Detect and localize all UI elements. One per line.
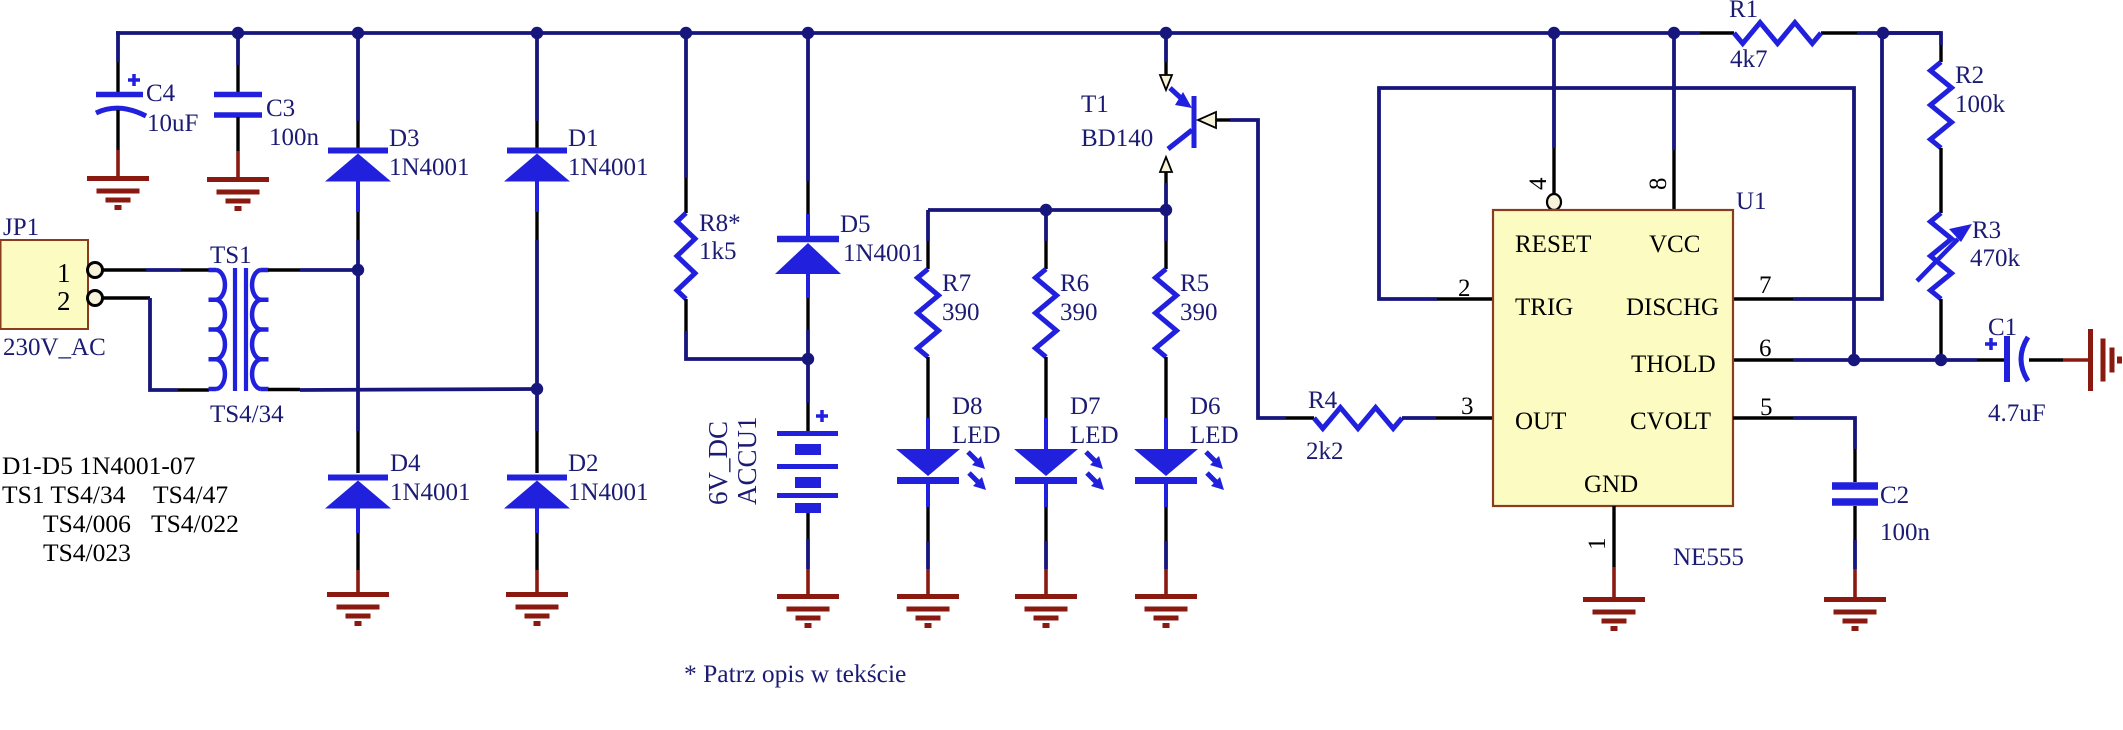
svg-text:100n: 100n [269,124,320,151]
wire secondary top to node A [268,268,300,271]
wire LED branch bus [928,208,1166,212]
svg-text:2k2: 2k2 [1306,438,1344,465]
svg-text:TS4/006: TS4/006 [43,509,131,538]
ground for D2 [506,592,568,597]
wire bus to D5 [806,33,810,181]
wire GND pin 1 to ground [1612,506,1615,567]
svg-text:R6: R6 [1060,270,1089,297]
capacitor C3 [236,33,240,65]
svg-text:D6: D6 [1190,393,1221,420]
svg-text:100k: 100k [1955,91,2006,118]
wire T1 base to R4 [1198,112,1216,128]
ground for U1 [1583,597,1645,602]
wire T1 collector to LED bus [1164,172,1167,183]
wire R7 to D8 [926,357,929,418]
resistor R1 [1734,23,1821,44]
diode D5 [777,236,839,243]
wire node B to D2 [535,389,539,431]
op-amp U1 NE555 body [1493,210,1733,506]
svg-text:1N4001: 1N4001 [568,154,649,181]
LED D6 [1134,449,1198,476]
svg-text:C3: C3 [266,95,295,122]
svg-text:R1: R1 [1729,0,1758,23]
svg-text:THOLD: THOLD [1631,351,1716,378]
svg-text:R8*: R8* [699,210,741,237]
svg-text:4: 4 [1525,177,1552,190]
svg-text:U1: U1 [1736,188,1767,215]
wire R3 to THOLD node [1939,299,1942,360]
ground for D4 [327,592,389,597]
svg-text:TS4/47: TS4/47 [153,480,228,509]
resistor R8 [677,213,695,299]
wire D1 to node B [535,212,538,240]
svg-text:R3: R3 [1972,217,2001,244]
svg-text:OUT: OUT [1515,408,1566,435]
transformer TS1 secondary winding [252,270,261,389]
svg-text:1N4001: 1N4001 [843,240,924,267]
svg-text:1: 1 [57,258,71,288]
svg-text:CVOLT: CVOLT [1630,408,1711,435]
transformer TS1 primary winding [216,270,225,389]
svg-text:1N4001: 1N4001 [568,479,649,506]
node pin4 junction [1548,27,1560,39]
wire bus to R8 [684,33,688,178]
wire DISCHG pin 7 to bus [1733,297,1793,300]
wire R4 to OUT pin 3 [1402,416,1436,420]
resistor R5 [1156,269,1177,357]
capacitor C1 [1985,342,1997,346]
wire node C to battery [806,359,810,403]
wire bus to D3 [356,33,360,121]
ground for C2 [1824,597,1886,602]
svg-text:GND: GND [1584,471,1638,498]
wire THOLD pin 6 row [1733,358,1793,361]
svg-text:TS1 TS4/34: TS1 TS4/34 [2,480,126,509]
ground for battery [777,594,839,599]
svg-text:LED: LED [1070,422,1119,449]
svg-text:2: 2 [57,286,71,316]
ground for C4 [87,176,149,181]
svg-text:JP1: JP1 [3,214,39,241]
wire bus to T1 emitter [1164,33,1168,62]
svg-text:DISCHG: DISCHG [1626,294,1719,321]
svg-text:* Patrz opis w tekście: * Patrz opis w tekście [684,659,906,688]
wire D4 to ground [356,533,359,570]
svg-text:390: 390 [1180,299,1218,326]
svg-text:BD140: BD140 [1081,125,1153,152]
svg-text:TS4/34: TS4/34 [210,401,284,428]
svg-text:6V_DC: 6V_DC [703,421,733,505]
LED D7 [1014,449,1078,476]
node B - transformer secondary bottom [531,383,543,395]
node R8 junction [680,27,692,39]
wire bus to D1 [535,33,539,121]
node C [802,353,814,365]
wire THOLD to C1 [1977,358,2004,361]
ground for C1 [2088,329,2093,391]
svg-text:1: 1 [1584,538,1611,551]
svg-text:1k5: 1k5 [699,238,737,265]
wire R6 to D7 [1044,357,1047,418]
node C3 junction [232,27,244,39]
resistor R6 [1036,269,1057,357]
svg-text:4k7: 4k7 [1730,46,1768,73]
svg-text:R4: R4 [1308,387,1338,414]
svg-text:R5: R5 [1180,270,1209,297]
wire battery to ground [806,513,809,539]
wire bus to R6 [1044,210,1048,241]
svg-text:10uF: 10uF [147,110,198,137]
wire D8 to ground [926,484,930,507]
wire secondary bottom to node B [268,388,300,391]
capacitor C4 [116,31,120,62]
wire D2 to ground [535,533,538,570]
diode D3 [328,148,388,154]
svg-text:RESET: RESET [1515,231,1591,258]
svg-text:1N4001: 1N4001 [390,479,471,506]
ground for D8 [897,594,959,599]
wire CVOLT pin 5 to C2 [1733,416,1793,419]
wire D7 to ground [1044,484,1048,507]
svg-text:8: 8 [1645,178,1672,191]
ground for D7 [1015,594,1077,599]
connector JP1 [1,240,89,329]
svg-text:TS1: TS1 [210,242,252,269]
svg-text:TS4/023: TS4/023 [43,538,131,567]
transistor T1 BD140 [1160,75,1172,90]
node D1 junction [531,27,543,39]
svg-text:D3: D3 [389,125,420,152]
node THOLD-R3 junction [1935,354,1947,366]
pin 2 of JP1 [88,291,103,306]
resistor R7 [918,269,939,357]
diode D2 [507,475,567,481]
svg-text:R2: R2 [1955,62,1984,89]
wire R8 to node C [684,299,687,331]
svg-text:D1-D5 1N4001-07: D1-D5 1N4001-07 [2,451,196,480]
svg-text:R7: R7 [942,270,971,297]
diode D1 [507,148,567,154]
svg-text:LED: LED [1190,422,1239,449]
transformer TS1 core [233,268,237,391]
svg-text:TRIG: TRIG [1515,294,1573,321]
battery ACCU1 6V_DC [816,414,828,418]
node THOLD-TRIG junction [1848,354,1860,366]
node A - transformer secondary top [352,264,364,276]
potentiometer R3 [1931,213,1952,299]
svg-text:3: 3 [1461,393,1474,420]
wire R2 to R3 [1939,148,1942,213]
capacitor C2 [1832,482,1878,490]
svg-text:D8: D8 [952,393,983,420]
wire JP1 pin2 to transformer primary bottom [102,296,150,299]
wire D5 to node C [806,298,809,330]
wire C3 to ground [236,151,240,179]
svg-text:470k: 470k [1970,245,2021,272]
svg-text:5: 5 [1760,394,1773,421]
svg-text:D2: D2 [568,450,599,477]
svg-text:D7: D7 [1070,393,1101,420]
wire TRIG pin 2 loop [1437,297,1493,300]
svg-text:TS4/022: TS4/022 [151,509,239,538]
svg-text:ACCU1: ACCU1 [732,416,762,505]
svg-text:VCC: VCC [1649,231,1700,258]
wire bus to R5 [1164,210,1168,241]
wire bus to VCC pin 8 [1672,33,1676,150]
svg-text:C1: C1 [1988,314,2017,341]
svg-text:D5: D5 [840,211,871,238]
svg-text:C4: C4 [146,80,176,107]
node R5 top / T1 collector [1160,204,1172,216]
svg-text:D4: D4 [390,450,421,477]
ground for D6 [1135,594,1197,599]
svg-text:C2: C2 [1880,482,1909,509]
node D5 junction [802,27,814,39]
ground for C3 [207,177,269,182]
svg-text:LED: LED [952,422,1001,449]
svg-text:390: 390 [942,299,980,326]
svg-text:7: 7 [1759,272,1772,299]
svg-text:D1: D1 [568,125,599,152]
wire top supply bus [116,31,1700,35]
svg-text:100n: 100n [1880,519,1931,546]
inverting circle pin 4 [1547,194,1561,210]
wire node A to D4 [356,270,360,431]
wire bus to R2 [1883,33,1941,45]
svg-text:T1: T1 [1081,91,1109,118]
svg-text:390: 390 [1060,299,1098,326]
node D3 junction [352,27,364,39]
wire bus to R7 [926,210,930,241]
wire C2 to ground [1853,506,1856,540]
node R6 top [1040,204,1052,216]
LED D8 [896,449,960,476]
wire R5 to D6 [1164,357,1167,418]
wire D3 to node A [356,212,359,240]
resistor R2 [1931,62,1952,148]
svg-text:6: 6 [1759,335,1772,362]
pin 1 of JP1 [88,263,103,278]
node T1 emitter junction [1160,27,1172,39]
wire bus to RESET pin 4 [1552,33,1556,148]
resistor R4 [1314,408,1402,429]
wire C4 to ground [116,150,120,178]
node R1 right junction [1877,27,1889,39]
svg-text:230V_AC: 230V_AC [3,334,106,361]
wire JP1 pin1 to transformer primary [102,268,146,271]
wire C1 to ground [2029,358,2063,361]
svg-text:NE555: NE555 [1673,544,1744,571]
svg-text:4.7uF: 4.7uF [1988,400,2046,427]
diode D4 [328,475,388,481]
svg-text:2: 2 [1458,275,1471,302]
node pin8 junction [1668,27,1680,39]
wire D6 to ground [1164,484,1168,507]
svg-text:1N4001: 1N4001 [389,154,470,181]
